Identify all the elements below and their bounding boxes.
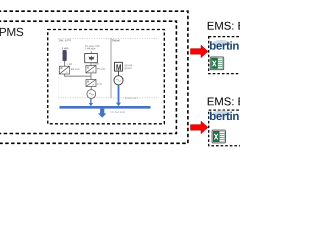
wire battery to conv1 bbox=[64, 61, 66, 66]
label conv2 bbox=[97, 68, 105, 70]
panel divider bbox=[110, 38, 112, 98]
label genset line2 bbox=[124, 67, 131, 69]
bertin text 2 bbox=[210, 112, 239, 120]
DC bus bbox=[60, 106, 151, 109]
label PV array bbox=[85, 45, 99, 47]
schematic panel left border bbox=[57, 38, 59, 98]
excel icon 2 bbox=[212, 130, 225, 143]
PV module box bbox=[85, 54, 98, 63]
label conv1 kW bbox=[67, 63, 72, 65]
label conv1 bbox=[71, 68, 80, 70]
wire conv3 to machine bbox=[90, 87, 92, 90]
schematic panel top border bbox=[58, 37, 159, 39]
battery bbox=[63, 50, 67, 61]
red arrow 1 bbox=[191, 45, 209, 58]
wire M to generator bbox=[117, 71, 119, 76]
bertin swoosh 2 bbox=[213, 110, 231, 116]
label on panel bottom bbox=[125, 97, 139, 99]
label conv2 kW bbox=[93, 63, 98, 65]
motor box M bbox=[115, 62, 123, 71]
excel icon 1 bbox=[210, 57, 223, 70]
label EMS 1 bbox=[208, 22, 245, 30]
machine circle left bbox=[87, 90, 96, 99]
inner schematic dashed frame bbox=[48, 30, 165, 124]
wire PV label to PV box bbox=[90, 51, 92, 53]
converter C3 (inverter) bbox=[86, 80, 96, 87]
label genset line1 bbox=[124, 64, 132, 66]
bertin text 1 bbox=[210, 41, 239, 49]
label conv3 bbox=[97, 83, 102, 85]
label EMS 2 bbox=[208, 97, 245, 105]
red arrow 2 bbox=[191, 121, 209, 134]
label load bbox=[111, 111, 125, 113]
wire conv1 to node bbox=[65, 74, 92, 76]
label left section bbox=[59, 39, 71, 41]
label PMS bbox=[0, 28, 23, 36]
converter C1 (battery DC/DC) bbox=[59, 66, 69, 74]
wire PV to conv2 bbox=[90, 63, 92, 66]
wire conv2 to conv3 bbox=[90, 73, 92, 80]
middle PMS dashed frame bbox=[0, 21, 176, 133]
load arrow below bus bbox=[98, 109, 106, 118]
EMS dashed box 1 bbox=[209, 37, 249, 74]
PV symbol bbox=[88, 56, 94, 60]
converter C2 (PV DC/DC) bbox=[86, 65, 96, 73]
blue drop generator bbox=[118, 85, 120, 103]
bertin swoosh 1 bbox=[213, 40, 231, 46]
blue drop left bbox=[90, 98, 92, 103]
label Diesel bbox=[112, 39, 119, 41]
outer PMS dashed frame bbox=[0, 11, 188, 143]
label battery kWh bbox=[62, 47, 69, 49]
schematic panel bottom border bbox=[58, 97, 159, 99]
generator circle bbox=[114, 76, 123, 85]
EMS dashed box 2 bbox=[209, 110, 249, 146]
